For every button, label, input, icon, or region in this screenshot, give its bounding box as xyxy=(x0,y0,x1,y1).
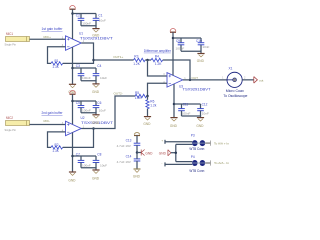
svg-text:WTB Conn: WTB Conn xyxy=(189,147,204,151)
svg-text:P3: P3 xyxy=(191,133,195,137)
wire battery midpoint stub xyxy=(137,152,141,154)
wire between R3 R4 xyxy=(145,59,151,61)
wire bracket to conn P3 pin2 xyxy=(176,143,192,145)
capacitor C4 xyxy=(93,64,107,81)
svg-text:R3: R3 xyxy=(134,55,138,59)
connector X1 micro coax xyxy=(223,66,247,98)
svg-text:R1: R1 xyxy=(55,59,59,63)
capacitor C12 xyxy=(197,102,209,116)
ground buffer1 top caps xyxy=(92,29,99,32)
svg-text:GND: GND xyxy=(92,90,100,94)
node OUT2 junction xyxy=(92,127,95,130)
wire V+ decoupling rail xyxy=(73,13,97,15)
svg-text:OUT1+: OUT1+ xyxy=(113,55,123,59)
wire V+ buffer1 xyxy=(72,9,74,39)
wire V- pin buffer1 xyxy=(72,47,74,84)
node V- rail junction diff xyxy=(173,103,176,106)
wire GND flag to bracket xyxy=(171,152,176,154)
svg-text:GND: GND xyxy=(145,152,153,156)
svg-text:100nF: 100nF xyxy=(82,21,91,25)
svg-text:10uF: 10uF xyxy=(99,109,106,113)
svg-text:MIC1: MIC1 xyxy=(6,32,13,36)
wire V+ decoupling rail diff xyxy=(173,37,201,39)
svg-text:To Oscilloscope: To Oscilloscope xyxy=(223,94,247,98)
wire cap bottom rail diff bottom xyxy=(182,116,201,117)
node output junction xyxy=(189,79,192,82)
resistor R1 xyxy=(51,59,63,69)
wire conn2 to opamp xyxy=(30,124,66,126)
svg-text:GND: GND xyxy=(133,175,141,179)
ground buffer2 bottom caps xyxy=(92,170,99,173)
node bracket junction xyxy=(175,151,178,154)
svg-text:GND: GND xyxy=(159,152,167,156)
wire inverting input buffer2 xyxy=(48,132,66,148)
svg-text:OUT2-: OUT2- xyxy=(114,91,123,95)
wire bracket to conn P4 pin2 xyxy=(176,161,192,163)
wire conn P4 pin1 xyxy=(161,161,192,166)
svg-text:100nF: 100nF xyxy=(82,76,91,80)
op-amp U1 xyxy=(66,36,82,51)
ground R6 xyxy=(144,117,151,120)
svg-text:C6: C6 xyxy=(97,101,101,105)
svg-text:4.7uF 16V: 4.7uF 16V xyxy=(117,144,132,148)
svg-text:1.2K: 1.2K xyxy=(133,62,140,66)
net flag out xyxy=(254,77,264,84)
connector P4 (WTB) xyxy=(189,155,210,173)
wire V- decoupling rail buffer1 xyxy=(73,67,97,69)
capacitor C5 xyxy=(76,101,91,113)
ground buffer2 top caps xyxy=(92,115,99,118)
svg-text:GND: GND xyxy=(170,124,178,128)
node V+ rail junction xyxy=(71,12,74,15)
svg-text:P4: P4 xyxy=(191,155,195,159)
svg-text:To A/A + In: To A/A + In xyxy=(214,141,229,145)
resistor R4 xyxy=(151,55,163,66)
node minus junction xyxy=(146,95,149,98)
wire inverting input buffer1 xyxy=(48,47,66,64)
svg-text:2nd gain buffer: 2nd gain buffer xyxy=(42,111,64,115)
svg-text:1.3K: 1.3K xyxy=(52,149,59,153)
svg-text:C7: C7 xyxy=(76,152,80,156)
svg-text:GND: GND xyxy=(92,121,100,125)
wire V- decoupling rail buffer2 xyxy=(73,155,97,157)
svg-text:C3: C3 xyxy=(76,64,80,68)
node V- rail junction buffer1 xyxy=(71,67,74,70)
wire feedback buffer1 xyxy=(63,43,94,63)
svg-text:GND: GND xyxy=(197,59,205,63)
ground buffer2 V- pin xyxy=(69,172,76,175)
wire OUT1 rail xyxy=(94,59,134,61)
node battery midpoint xyxy=(136,151,139,154)
svg-text:GND: GND xyxy=(68,178,76,182)
wire V+ buffer2 xyxy=(72,94,74,124)
wire V- decoupling rail diff xyxy=(174,103,201,105)
svg-text:GND: GND xyxy=(92,33,100,37)
svg-text:GND: GND xyxy=(143,122,151,126)
svg-text:-: - xyxy=(161,161,162,165)
resistor R2 xyxy=(51,143,63,153)
net flag GND right xyxy=(159,150,171,156)
ground buffer1 V- pin xyxy=(69,84,76,87)
svg-text:10uF: 10uF xyxy=(99,19,106,23)
wire V- pin diff xyxy=(173,84,175,117)
node OUT1 junction xyxy=(92,59,95,62)
svg-text:TSX9291DBVT: TSX9291DBVT xyxy=(183,88,211,92)
svg-text:C9: C9 xyxy=(176,39,180,43)
svg-text:100nF: 100nF xyxy=(82,163,91,167)
wire gnd bracket vertical xyxy=(175,144,177,161)
connector P3 (WTB) xyxy=(189,133,210,151)
capacitor C1 xyxy=(93,14,106,26)
svg-text:MIC+: MIC+ xyxy=(44,35,52,39)
svg-text:C13: C13 xyxy=(126,138,132,142)
svg-text:Single Pin: Single Pin xyxy=(5,42,17,46)
svg-text:Difference amplifier: Difference amplifier xyxy=(144,49,172,53)
wire cap bottom rail buffer2 bottom xyxy=(81,168,96,170)
power symbol VCC buffer1 xyxy=(70,6,76,10)
connector P1 (Single Pin) xyxy=(5,32,30,46)
op-amp U2 xyxy=(66,121,82,136)
wire conn1 to opamp xyxy=(30,38,66,40)
ground battery bottom xyxy=(133,169,141,179)
svg-text:C12: C12 xyxy=(202,102,208,106)
svg-text:10uF: 10uF xyxy=(100,163,107,167)
ground diff top caps xyxy=(197,54,204,57)
svg-text:MIC-: MIC- xyxy=(44,119,51,123)
svg-text:10nF: 10nF xyxy=(202,112,209,116)
svg-text:1.2K: 1.2K xyxy=(135,96,142,100)
svg-text:R2: R2 xyxy=(55,143,59,147)
connector P2 (Single Pin) xyxy=(5,116,30,132)
power symbol battery top xyxy=(134,133,140,136)
wire plus input drop xyxy=(148,60,168,76)
svg-text:To A/A - In: To A/A - In xyxy=(214,161,229,165)
wire V- pin buffer2 xyxy=(72,133,74,172)
svg-text:WTB Conn: WTB Conn xyxy=(189,169,204,173)
svg-text:MIC2: MIC2 xyxy=(6,116,13,120)
svg-text:100nF: 100nF xyxy=(182,112,191,116)
wire V+ decoupling rail buffer2 xyxy=(73,100,97,102)
node V+ rail junction diff xyxy=(172,37,175,40)
svg-text:+: + xyxy=(161,138,163,142)
capacitor C2 xyxy=(76,14,91,26)
resistor R6 (to ground, vertical) xyxy=(146,96,157,116)
svg-text:1.3K: 1.3K xyxy=(52,65,59,69)
wire cap bottom rail diff top xyxy=(181,51,201,53)
svg-text:100nF: 100nF xyxy=(82,109,91,113)
capacitor C11 xyxy=(178,102,190,116)
svg-text:X1: X1 xyxy=(229,66,233,70)
ground buffer1 bottom caps xyxy=(92,84,99,87)
wire V+ diff xyxy=(172,32,174,75)
svg-text:R4: R4 xyxy=(155,55,159,59)
svg-text:1st gain buffer: 1st gain buffer xyxy=(42,27,64,31)
wire conn P3 pin1 xyxy=(161,138,192,143)
svg-text:Micro Coax: Micro Coax xyxy=(226,89,244,93)
capacitor C14 xyxy=(117,153,141,169)
svg-text:10nF: 10nF xyxy=(202,45,209,49)
ground diff V- pin xyxy=(170,118,177,121)
wire OUT2 to riser xyxy=(81,96,135,128)
capacitor C7 xyxy=(76,152,91,167)
node V- rail junction buffer2 xyxy=(71,155,74,158)
svg-text:C8: C8 xyxy=(97,152,101,156)
svg-text:C1: C1 xyxy=(98,14,102,18)
svg-text:U1: U1 xyxy=(79,32,83,36)
svg-text:U2: U2 xyxy=(81,116,85,120)
svg-text:C10: C10 xyxy=(196,39,202,43)
svg-text:100nF: 100nF xyxy=(176,47,185,51)
capacitor C3 xyxy=(76,64,91,81)
wire feedback buffer2 xyxy=(63,128,94,147)
svg-text:C5: C5 xyxy=(76,101,80,105)
svg-text:10uF: 10uF xyxy=(100,76,107,80)
ground diff bottom caps xyxy=(197,118,204,121)
net flag GND left xyxy=(141,150,153,156)
power symbol VCC diff xyxy=(170,29,176,33)
svg-text:C2: C2 xyxy=(76,14,80,18)
svg-text:out: out xyxy=(259,78,263,82)
resistor R5 xyxy=(135,91,147,100)
svg-text:GND: GND xyxy=(92,176,100,180)
node V+ rail junction buffer2 xyxy=(71,100,74,103)
capacitor C10 xyxy=(196,38,210,51)
capacitor C9 xyxy=(176,38,185,51)
op-amp U3 xyxy=(167,73,183,88)
capacitor C13 xyxy=(117,136,141,153)
node noninverting junction xyxy=(146,59,149,62)
wire X1 to out flag xyxy=(242,79,254,81)
svg-text:4.7uF 16V: 4.7uF 16V xyxy=(117,160,132,164)
wire output to X1 xyxy=(183,79,227,81)
resistor R3 xyxy=(133,55,145,66)
svg-text:R5: R5 xyxy=(135,91,139,95)
svg-text:1.2K: 1.2K xyxy=(155,62,162,66)
wire minus input diff xyxy=(148,83,168,96)
svg-text:OUT: OUT xyxy=(192,76,199,80)
power symbol VCC buffer2 xyxy=(70,91,76,95)
capacitor C6 xyxy=(93,101,106,113)
svg-text:C14: C14 xyxy=(126,154,132,158)
wire cap bottom rail buffer1 top xyxy=(81,26,96,29)
wire R5 to node xyxy=(146,95,149,97)
capacitor C8 xyxy=(93,152,107,167)
svg-text:GND: GND xyxy=(196,124,204,128)
svg-text:Single Pin: Single Pin xyxy=(5,128,17,132)
wire cap bottom rail buffer1 bottom xyxy=(81,81,96,84)
svg-text:C4: C4 xyxy=(97,64,101,68)
wire R4 to feedback corner xyxy=(163,60,190,80)
wire cap bottom rail buffer2 top xyxy=(81,113,96,115)
svg-text:1.2k: 1.2k xyxy=(150,104,156,108)
svg-text:C11: C11 xyxy=(183,102,189,106)
